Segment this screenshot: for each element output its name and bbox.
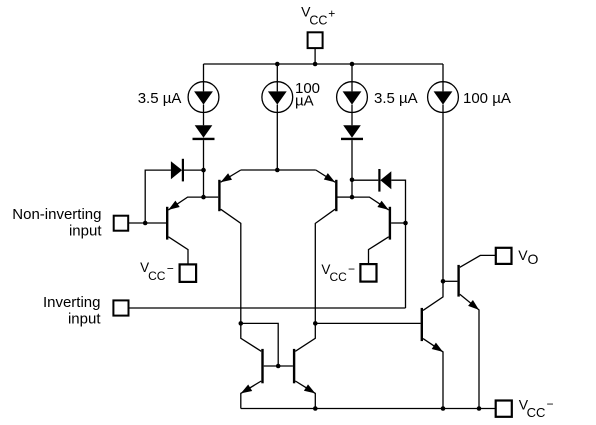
diode D2	[171, 159, 183, 182]
wire mirror base link	[264, 365, 293, 367]
svg-text:input: input	[68, 311, 101, 328]
label VCC- (left)	[140, 260, 174, 283]
junction Q2 collector / mirror	[239, 321, 244, 326]
svg-text:CC: CC	[527, 405, 546, 420]
junction node P2	[201, 195, 206, 200]
wire rail to I4	[442, 64, 444, 82]
wire D3 to node P3	[351, 140, 353, 180]
terminal inverting input	[113, 300, 128, 315]
diode D1	[193, 125, 215, 139]
wire D4 anode riser	[391, 180, 405, 308]
svg-text:3.5 µA: 3.5 µA	[374, 90, 418, 107]
label VCC- (middle)	[321, 262, 355, 284]
wire D2 cathode to P1	[184, 169, 204, 171]
wire D1 to node P1	[203, 140, 205, 170]
svg-text:−: −	[547, 397, 554, 411]
junction rail/VCC+	[313, 62, 318, 67]
svg-text:µA: µA	[295, 93, 314, 110]
label Non-inverting input	[12, 206, 102, 240]
wire I1 to D1	[203, 113, 205, 126]
diode D3	[341, 125, 363, 139]
junction non-inv input node	[143, 221, 148, 226]
svg-text:CC: CC	[309, 14, 327, 28]
junction Q3 base node	[403, 221, 408, 226]
svg-text:CC: CC	[148, 269, 166, 283]
junction rail/Q7 emitter	[477, 406, 482, 411]
junction mirror bases	[276, 364, 281, 369]
current source I2 100uA	[262, 82, 293, 113]
svg-text:CC: CC	[330, 270, 348, 284]
junction Q4 collector / mirror	[313, 321, 318, 326]
junction rail/Q8 emitter	[441, 406, 446, 411]
junction node P1	[201, 168, 206, 173]
label VO	[518, 247, 538, 267]
wire node P3 to node P4	[351, 180, 353, 197]
junction rail/Q6 emitter	[313, 406, 318, 411]
transistor Q2	[204, 170, 241, 323]
label Inverting input	[43, 294, 101, 328]
junction rail/I2	[275, 62, 280, 67]
wire I3 to D3	[351, 113, 353, 126]
wire rail to I3	[351, 64, 353, 82]
svg-text:3.5 µA: 3.5 µA	[138, 90, 182, 107]
svg-text:Inverting: Inverting	[43, 294, 101, 311]
transistor Q1	[167, 197, 203, 264]
wire non-inverting input to Q1 base	[128, 222, 166, 224]
wire Q2/Q4 emitter line	[241, 169, 316, 171]
label VCC- (bottom right)	[519, 397, 554, 420]
transistor Q5	[241, 323, 263, 408]
wire P3 to D4 cathode	[352, 179, 378, 181]
junction node P3	[350, 178, 355, 183]
wire rail to I2	[276, 64, 278, 82]
transistor Q3	[352, 197, 406, 264]
wire rail to I1	[203, 64, 205, 82]
terminal VO	[496, 248, 512, 264]
transistor Q4	[315, 170, 352, 323]
junction node N4	[441, 279, 446, 284]
wire D2 anode	[145, 170, 171, 223]
wire I4 to node N4	[442, 113, 444, 282]
terminal VCC- (Q3 collector)	[360, 264, 376, 282]
wire mirror to Q8 base	[315, 322, 420, 324]
transistor Q6	[294, 323, 315, 408]
wire mirror diode connection	[241, 323, 278, 366]
transistor Q7	[443, 255, 496, 408]
wire node P1 to node P2	[203, 170, 205, 197]
svg-text:O: O	[528, 251, 539, 267]
current source I3 3.5uA	[337, 82, 368, 113]
wire top supply rail	[204, 63, 444, 65]
current source I4 100uA	[428, 82, 459, 113]
current source I1 3.5uA	[188, 82, 219, 113]
svg-text:100 µA: 100 µA	[463, 90, 511, 107]
wire bottom VCC- rail	[241, 408, 496, 410]
svg-text:Non-inverting: Non-inverting	[12, 206, 101, 223]
terminal non-inverting input	[114, 216, 129, 231]
transistor Q8	[422, 281, 443, 408]
svg-text:−: −	[348, 262, 355, 276]
wire inverting input	[129, 307, 406, 309]
terminal VCC- (Q1 collector)	[180, 264, 197, 282]
label 100 uA (I2)	[295, 80, 320, 110]
wire VCC+ stem	[314, 48, 316, 64]
svg-text:+: +	[328, 7, 335, 21]
terminal VCC- (bottom right)	[496, 401, 512, 417]
terminal VCC+	[308, 32, 323, 48]
label VCC+	[301, 4, 335, 28]
junction I2/emitters	[275, 168, 280, 173]
wire I2 to emitter line	[276, 113, 278, 171]
junction node P4	[350, 195, 355, 200]
diode D4	[379, 169, 391, 192]
svg-text:−: −	[167, 262, 174, 276]
svg-text:input: input	[69, 222, 102, 239]
junction rail/I3	[350, 62, 355, 67]
